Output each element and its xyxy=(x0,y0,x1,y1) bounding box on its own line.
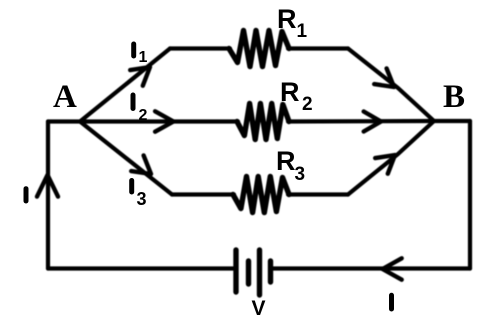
arrow I on left vertical wire xyxy=(37,175,58,197)
battery V short plate 1 xyxy=(246,261,251,284)
wire branch1 right diagonal xyxy=(348,49,434,122)
label I bottom current bar xyxy=(389,295,394,309)
arrow I1 on branch1 left diagonal xyxy=(130,67,150,86)
arrow on branch2 right xyxy=(364,112,381,132)
svg-text:1: 1 xyxy=(139,49,148,66)
svg-text:V: V xyxy=(252,297,266,320)
svg-text:2: 2 xyxy=(302,94,313,115)
label I left current bar xyxy=(24,189,29,201)
resistor R1 xyxy=(229,31,289,67)
wire node B stub xyxy=(434,119,470,123)
resistor R2 xyxy=(237,104,289,140)
wire branch1 left horizontal xyxy=(170,46,230,50)
arrow on branch1 right diagonal xyxy=(374,68,394,87)
wire left vertical xyxy=(46,122,50,269)
wire bottom left xyxy=(48,266,233,270)
label I3 current bar xyxy=(129,181,134,193)
wire branch1 left diagonal xyxy=(80,49,170,122)
wire branch1 right horizontal xyxy=(288,46,348,50)
resistor R3 xyxy=(233,177,289,213)
wire branch3 right diagonal xyxy=(348,121,434,195)
wire branch3 right horizontal xyxy=(288,192,348,196)
arrow I2 on branch2 left xyxy=(155,111,173,131)
wire branch3 left diagonal xyxy=(80,122,172,195)
svg-text:3: 3 xyxy=(137,189,147,209)
label I2 current bar xyxy=(131,95,136,109)
wire bottom right xyxy=(273,266,470,270)
svg-text:3: 3 xyxy=(295,164,306,185)
svg-text:1: 1 xyxy=(297,21,308,42)
arrow I3 on branch3 left diagonal xyxy=(131,155,151,174)
svg-text:R: R xyxy=(280,77,300,107)
wire branch2 right horizontal xyxy=(288,119,434,124)
svg-text:B: B xyxy=(443,79,465,115)
svg-text:R: R xyxy=(276,146,296,176)
wire right vertical xyxy=(468,121,472,269)
svg-text:2: 2 xyxy=(139,107,148,124)
svg-text:A: A xyxy=(53,79,77,115)
node A junction wire segment xyxy=(48,119,80,123)
arrow I on bottom wire xyxy=(383,258,402,279)
wire branch3 left horizontal xyxy=(172,192,234,196)
wire branch2 left horizontal xyxy=(80,119,238,123)
svg-text:R: R xyxy=(277,4,297,34)
label I1 current bar xyxy=(131,44,136,56)
battery V short plate 2 xyxy=(268,261,273,282)
battery V long plate 2 xyxy=(257,250,262,295)
arrow on branch3 right diagonal xyxy=(375,155,395,174)
battery V long plate 1 xyxy=(233,250,238,292)
